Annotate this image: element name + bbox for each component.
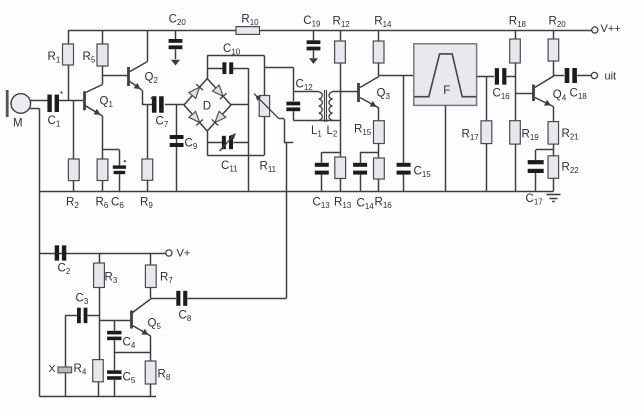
svg-text:C12: C12 xyxy=(296,79,314,93)
svg-text:C18: C18 xyxy=(570,88,588,102)
svg-text:Q1: Q1 xyxy=(100,96,114,110)
svg-text:V+: V+ xyxy=(177,248,191,260)
svg-text:C10: C10 xyxy=(223,43,241,57)
svg-text:R15: R15 xyxy=(354,124,372,138)
svg-text:R3: R3 xyxy=(105,272,118,286)
svg-text:Q5: Q5 xyxy=(148,318,162,332)
svg-text:R20: R20 xyxy=(549,15,567,29)
svg-text:R4: R4 xyxy=(74,363,87,377)
svg-text:R19: R19 xyxy=(522,129,540,143)
svg-text:C16: C16 xyxy=(493,88,511,102)
svg-text:R10: R10 xyxy=(241,13,259,27)
svg-text:D: D xyxy=(203,101,211,113)
svg-text:C6: C6 xyxy=(111,197,124,211)
svg-text:C1: C1 xyxy=(48,115,61,129)
svg-text:C15: C15 xyxy=(414,166,432,180)
svg-text:L2: L2 xyxy=(327,125,338,139)
svg-text:Q4: Q4 xyxy=(553,89,567,103)
svg-text:C14: C14 xyxy=(357,198,375,212)
svg-text:C2: C2 xyxy=(58,263,71,277)
svg-text:C17: C17 xyxy=(526,193,544,207)
svg-text:C13: C13 xyxy=(313,197,331,211)
svg-text:M: M xyxy=(13,118,23,130)
svg-text:C3: C3 xyxy=(76,293,89,307)
svg-text:C5: C5 xyxy=(123,372,136,386)
svg-text:C9: C9 xyxy=(185,138,198,152)
svg-text:C11: C11 xyxy=(221,160,238,174)
svg-text:uit: uit xyxy=(605,71,617,83)
svg-text:Q2: Q2 xyxy=(145,72,159,86)
svg-text:R6: R6 xyxy=(96,197,109,211)
svg-text:C8: C8 xyxy=(179,310,192,324)
svg-text:F: F xyxy=(443,85,450,97)
svg-text:X: X xyxy=(49,363,56,375)
svg-text:R9: R9 xyxy=(140,197,153,211)
svg-text:R8: R8 xyxy=(158,369,171,383)
svg-text:C19: C19 xyxy=(303,15,321,29)
svg-text:R2: R2 xyxy=(66,197,79,211)
svg-text:L1: L1 xyxy=(311,125,322,139)
svg-text:R7: R7 xyxy=(160,272,173,286)
svg-text:C20: C20 xyxy=(169,13,187,27)
svg-text:R14: R14 xyxy=(374,15,392,29)
svg-text:Q3: Q3 xyxy=(377,88,391,102)
svg-text:R12: R12 xyxy=(333,15,351,29)
svg-text:R13: R13 xyxy=(334,197,352,211)
svg-text:R1: R1 xyxy=(48,51,61,65)
svg-text:C7: C7 xyxy=(156,116,169,130)
svg-text:C4: C4 xyxy=(123,337,136,351)
svg-text:R18: R18 xyxy=(509,15,527,29)
svg-text:R11: R11 xyxy=(260,161,277,175)
svg-text:R16: R16 xyxy=(375,197,393,211)
svg-text:R5: R5 xyxy=(83,51,96,65)
svg-text:V++: V++ xyxy=(601,23,621,35)
svg-text:R22: R22 xyxy=(562,162,580,176)
svg-text:R17: R17 xyxy=(462,129,480,143)
svg-text:R21: R21 xyxy=(562,128,580,142)
